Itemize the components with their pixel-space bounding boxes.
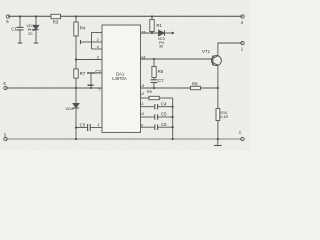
terminal 5 top-left — [6, 15, 9, 18]
wire emitter down — [217, 65, 219, 108]
terminal 6 mid-left — [4, 86, 7, 89]
svg-text:R4: R4 — [80, 25, 86, 30]
svg-text:R7: R7 — [80, 71, 86, 76]
svg-text:R6: R6 — [158, 69, 164, 74]
wire pin3 row — [76, 59, 102, 61]
node C3 tap — [75, 126, 77, 128]
svg-text:12: 12 — [140, 91, 144, 96]
svg-text:R9: R9 — [147, 89, 153, 94]
node pin15/R1 — [151, 32, 153, 34]
svg-text:2: 2 — [97, 37, 99, 42]
node bus rail — [172, 138, 174, 140]
terminal 2 bottom-right — [241, 137, 244, 140]
capacitor C1 — [17, 17, 24, 44]
svg-text:C3: C3 — [80, 123, 86, 128]
zener diode VD2 — [73, 104, 79, 140]
wire mid-left input — [6, 87, 103, 89]
terminal 1 mid-right — [241, 41, 244, 44]
svg-text:20: 20 — [28, 31, 33, 36]
capacitor C7 — [151, 77, 158, 88]
capacitor C5 + wire pin10 row — [141, 114, 173, 119]
node C2 bottom — [90, 87, 92, 89]
resistor R3 — [51, 14, 61, 18]
svg-text:R3: R3 — [53, 20, 59, 25]
terminal 3 bottom-left — [4, 137, 7, 140]
op-amp U1 body: IC DA1 rectangle — [102, 25, 141, 132]
node mid-left cross — [75, 87, 77, 89]
svg-text:C6: C6 — [161, 122, 167, 127]
svg-text:C7: C7 — [158, 78, 164, 83]
svg-text:C5: C5 — [161, 111, 167, 116]
svg-text:VT1: VT1 — [202, 49, 211, 54]
node dots — [19, 15, 219, 140]
resistor R1 — [150, 17, 154, 34]
zener diode VD1 — [33, 17, 39, 44]
node C7 bottom — [153, 87, 155, 89]
capacitor C3 — [76, 124, 102, 131]
wire pin13 row — [141, 87, 218, 89]
resistor R10 — [216, 109, 220, 140]
svg-text:13: 13 — [140, 83, 144, 88]
svg-text:R8: R8 — [192, 82, 198, 87]
svg-text:15: 15 — [141, 29, 145, 34]
wire feedback bus — [172, 98, 174, 139]
svg-text:9: 9 — [141, 122, 143, 127]
terminal 4 top-right — [241, 15, 244, 18]
pin number labels — [97, 29, 147, 127]
node bus pin9 — [172, 126, 174, 128]
wire pin14 row to base — [141, 58, 213, 60]
resistor R7 — [74, 60, 78, 104]
node top rail R4 — [75, 15, 77, 17]
wire top rail — [8, 15, 243, 17]
svg-text:L4970A: L4970A — [112, 76, 127, 81]
wire pin15 row — [141, 32, 159, 34]
wire collector to terminal 1 — [218, 43, 243, 56]
node top rail VD1 — [35, 15, 37, 17]
svg-text:3: 3 — [97, 54, 99, 59]
svg-text:C2: C2 — [95, 69, 101, 74]
capacitor C6 + wire pin9 row — [141, 125, 173, 130]
node emitter rail — [217, 138, 219, 140]
node R6 top — [153, 58, 155, 60]
svg-text:1: 1 — [97, 122, 99, 127]
ground stub — [214, 139, 222, 146]
node top rail C1 — [19, 15, 21, 17]
svg-text:11: 11 — [140, 101, 144, 106]
transistor Q1 VT1 — [211, 56, 221, 66]
svg-text:C4: C4 — [161, 102, 167, 107]
node pin3/R7 — [75, 58, 77, 60]
resistor R8 — [191, 86, 201, 89]
node bus pin10 — [172, 116, 174, 118]
resistor R9 + wire pin12 row — [141, 96, 173, 99]
resistor R6 — [152, 59, 156, 78]
svg-text:7: 7 — [98, 87, 100, 92]
resistor R4 (upper, on x=76 branch) — [74, 17, 78, 60]
capacitor C4 + wire pin11 row — [141, 104, 173, 109]
node top rail R1 — [151, 15, 153, 17]
svg-text:C1: C1 — [11, 26, 17, 31]
svg-text:30: 30 — [159, 44, 163, 48]
node bottom rail VD2 — [75, 138, 77, 140]
svg-text:VD2: VD2 — [65, 106, 74, 111]
diode VD3 — [159, 30, 174, 36]
svg-text:R1: R1 — [156, 23, 162, 28]
node bus pin11 — [172, 106, 174, 108]
capacitor C2 — [87, 73, 102, 88]
wire pins 2/4 bracket — [81, 33, 103, 50]
wire bottom rail — [6, 138, 243, 140]
svg-text:0,1R: 0,1R — [220, 115, 228, 119]
node emitter/R8 — [217, 87, 219, 89]
